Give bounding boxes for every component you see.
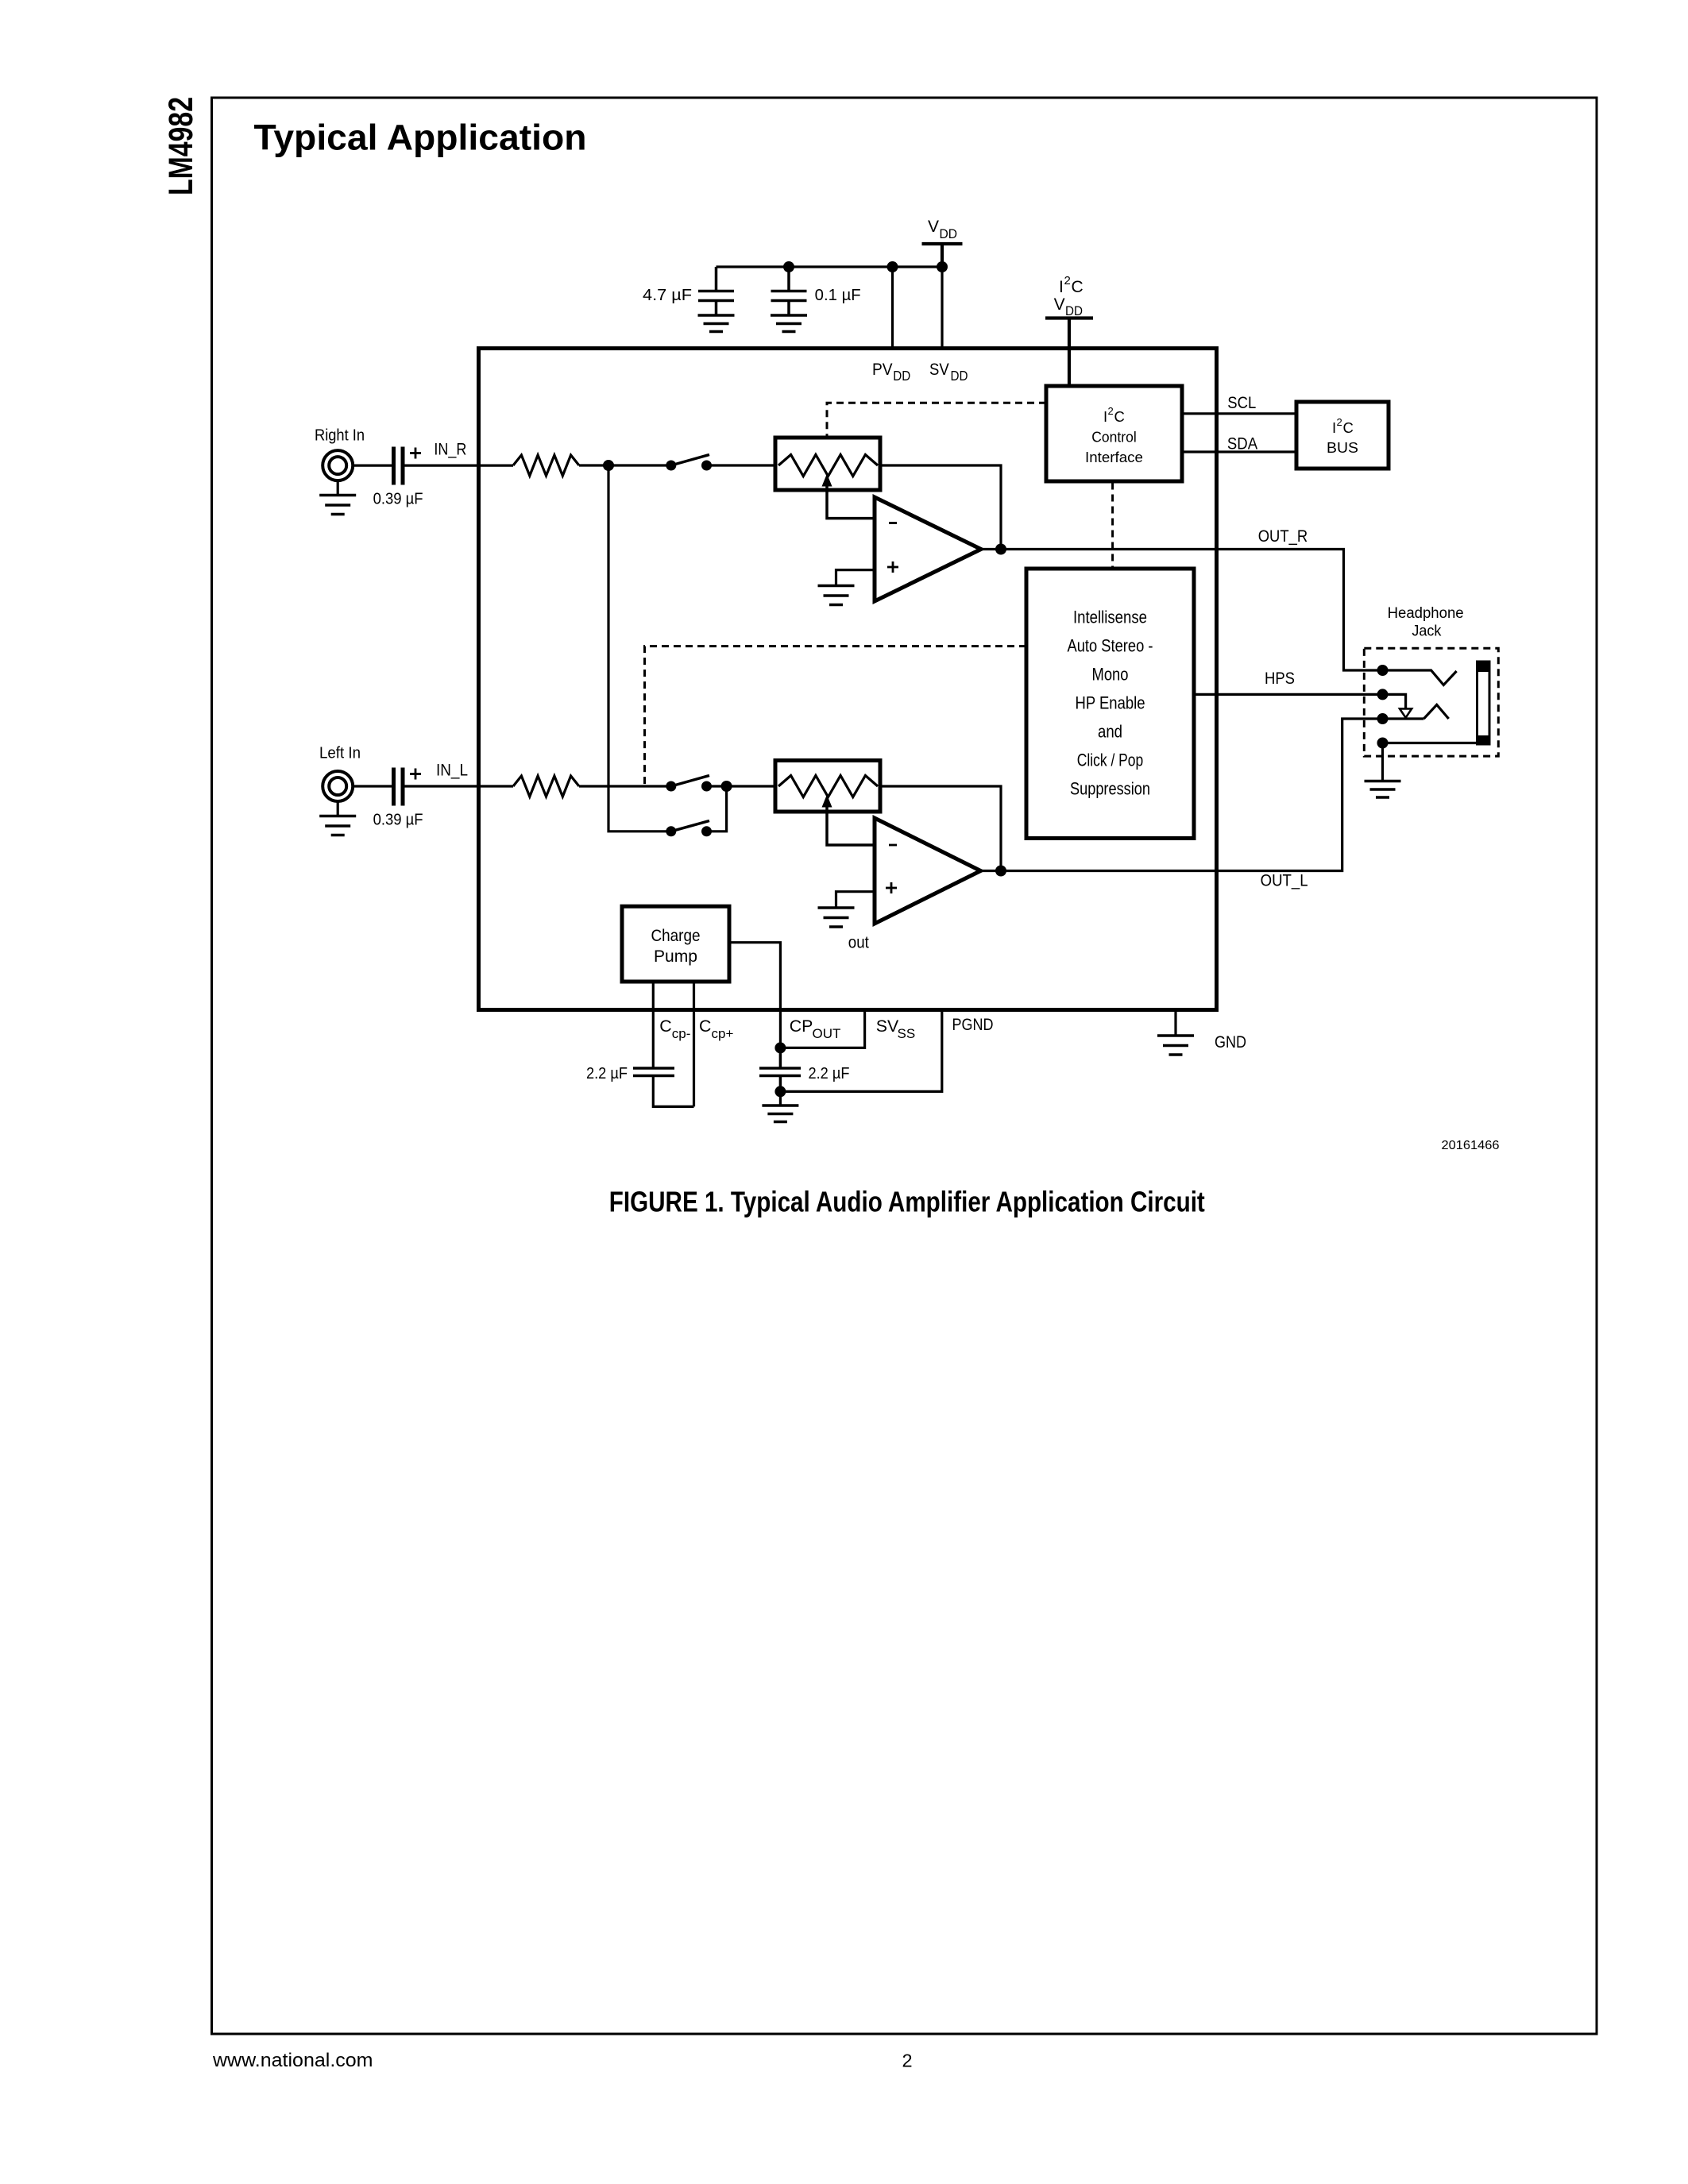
svg-text:Left In: Left In [319,745,361,762]
jack pin 1 tip contact [1377,665,1389,676]
junction on VDD rail at SVDD [937,261,948,272]
wire OUT_L [981,719,1383,871]
chip outline U1 [479,349,1217,1010]
junction right op-amp output [995,544,1006,555]
wire flying cap bottom to Ccp+ [653,1076,693,1107]
I2C BUS block [1296,402,1389,469]
wire pot feedback to output left [880,786,1001,871]
resistor right input [513,455,579,476]
svg-text:IN_L: IN_L [436,761,468,780]
wire Left In to cap [353,785,392,787]
capacitor 0.1uF [771,267,807,315]
svg-text:C: C [1072,278,1083,296]
svg-text:and: and [1098,722,1122,742]
svg-text:Auto Stereo -: Auto Stereo - [1068,636,1153,656]
wire Ccp+ [693,982,695,1106]
node A junction [603,460,614,471]
wire op-amp plus to ground [836,570,875,586]
junction on VDD rail at PVDD [887,261,898,272]
svg-text:DD: DD [893,368,910,384]
svg-text:C: C [1114,408,1125,425]
jack sleeve bar [1477,662,1490,744]
wire cap bottom to PGND [780,1010,941,1092]
svg-text:OUT_L: OUT_L [1261,871,1308,890]
wire SVDD riser [941,267,943,350]
jack pin 4 sleeve [1377,738,1389,749]
ground under 4.7uF [698,315,735,332]
svg-text:C: C [699,1017,711,1036]
junction on VDD rail at 0.1uF [783,261,794,272]
svg-text:Control: Control [1091,429,1137,446]
svg-text:V: V [1054,295,1065,314]
op-amp right [875,497,981,601]
op-amp left [875,818,981,924]
svg-text:Pump: Pump [654,947,697,966]
wire op-amp plus to ground left [836,892,875,908]
svg-text:2: 2 [1064,274,1071,287]
volume pot left [775,761,880,812]
svg-text:OUT_R: OUT_R [1258,527,1308,546]
svg-text:0.1 µF: 0.1 µF [815,287,861,304]
dashed control line to intellisense [1111,483,1114,569]
wire pot wiper to op-amp minus [827,485,875,519]
svg-text:I: I [1332,419,1336,436]
svg-text:4.7 µF: 4.7 µF [643,287,692,304]
capacitor 0.39uF left input [394,768,404,806]
wire CPOUT to SVSS [780,1010,864,1048]
capacitor 4.7uF [698,267,734,315]
wire IN_R [405,464,514,466]
svg-text:2: 2 [1337,416,1342,428]
svg-text:PGND: PGND [952,1015,994,1034]
svg-text:DD: DD [940,226,958,241]
svg-text:Charge: Charge [651,926,701,945]
svg-text:SV: SV [876,1017,899,1036]
junction output cap bottom [774,1086,786,1097]
svg-text:Headphone: Headphone [1388,605,1464,622]
switch mono [666,826,676,836]
svg-text:SDA: SDA [1227,434,1258,453]
wire SDA [1182,450,1296,453]
VDD terminal [922,244,963,267]
svg-text:C: C [1343,419,1354,436]
svg-text:FIGURE 1. Typical Audio Amplif: FIGURE 1. Typical Audio Amplifier Applic… [609,1186,1205,1218]
svg-text:SV: SV [929,361,949,379]
dashed control line to input switches [645,646,1027,785]
ground under Right In jack [337,480,339,496]
svg-text:Interface: Interface [1085,449,1143,465]
svg-text:OUT: OUT [813,1026,841,1041]
wire pot feedback to output right [880,465,1001,550]
svg-text:V: V [928,218,939,236]
node B junction [721,781,732,792]
svg-text:0.39 µF: 0.39 µF [373,491,423,508]
svg-text:Jack: Jack [1412,623,1441,640]
wire resistor to switch [579,464,671,466]
svg-text:cp-: cp- [672,1026,691,1041]
svg-text:I: I [1059,278,1064,296]
wire switch to pot left [707,785,776,787]
capacitor 2.2uF flying [633,1068,674,1076]
jack pin 2 HPS sense [1377,689,1389,700]
I2C VDD terminal [1045,318,1093,386]
capacitor 2.2uF CPOUT [759,1048,801,1091]
svg-text:C: C [659,1017,671,1036]
headphone jack dashed box [1364,648,1498,756]
wire Ccp- [652,982,655,1068]
wire OUT_R [981,550,1383,671]
ground under output cap [779,1091,782,1106]
svg-text:2: 2 [1108,405,1114,417]
svg-text:DD: DD [951,368,968,384]
ground under jack [1381,743,1384,781]
page border frame [212,98,1597,2034]
svg-text:LM4982: LM4982 [163,97,200,195]
GND pin stub [1174,1010,1176,1036]
svg-text:2.2 µF: 2.2 µF [586,1065,628,1082]
I2C Control Interface block [1046,386,1182,481]
svg-text:Intellisense: Intellisense [1073,608,1147,627]
svg-text:out: out [848,933,869,952]
wire IN_L [405,785,514,787]
svg-text:I: I [1103,408,1107,425]
svg-text:Mono: Mono [1092,665,1129,685]
wire resistor to switch left [579,785,671,787]
wire charge pump to CPOUT [729,943,780,1048]
wire mono switch to node B [707,786,727,832]
svg-text:GND: GND [1215,1032,1246,1051]
svg-text:Typical Application: Typical Application [254,118,587,158]
capacitor 0.39uF right input [394,447,404,485]
svg-text:BUS: BUS [1327,439,1358,456]
svg-text:2.2 µF: 2.2 µF [809,1065,850,1082]
svg-text:SCL: SCL [1227,393,1256,412]
wire HPS [1194,693,1383,696]
svg-text:Click / Pop: Click / Pop [1077,751,1144,770]
jack pin 3 ring contact [1377,713,1389,724]
svg-text:CP: CP [790,1017,813,1036]
ground GND [1157,1036,1194,1055]
ground under Left In jack [337,801,339,816]
polarity + [410,769,421,780]
polarity + [410,448,421,459]
svg-text:cp+: cp+ [712,1026,734,1041]
svg-text:2: 2 [902,2051,913,2071]
dashed control line to right volume pot [827,403,1046,438]
junction CPOUT node [774,1042,786,1053]
volume pot right [775,438,880,490]
ground under 0.1uF [771,315,807,332]
wire mono link from node A [608,465,671,832]
Intellisense block [1026,569,1194,839]
switch left channel [666,781,676,792]
junction left op-amp output [995,866,1006,877]
wire switch to pot [707,464,776,466]
svg-text:SS: SS [898,1026,916,1041]
wire PVDD riser [891,267,894,350]
Charge Pump block [622,906,729,982]
wire pot wiper to op-amp minus left [827,806,875,845]
svg-text:0.39 µF: 0.39 µF [373,812,423,829]
svg-text:Suppression: Suppression [1070,779,1150,799]
wire Right In to cap [353,464,392,466]
svg-text:IN_R: IN_R [434,440,466,459]
svg-text:HP Enable: HP Enable [1076,693,1145,713]
ground at right op-amp [818,586,855,605]
svg-text:HPS: HPS [1265,669,1295,688]
svg-text:Right In: Right In [315,427,365,445]
svg-text:20161466: 20161466 [1442,1139,1500,1152]
ground at left op-amp [818,908,855,927]
wire VDD rail [717,265,943,268]
wire SCL [1182,412,1296,415]
switch right channel [666,461,676,471]
resistor left input [513,776,579,797]
svg-text:www.national.com: www.national.com [212,2050,373,2071]
svg-text:PV: PV [872,361,893,379]
svg-text:DD: DD [1065,303,1083,318]
